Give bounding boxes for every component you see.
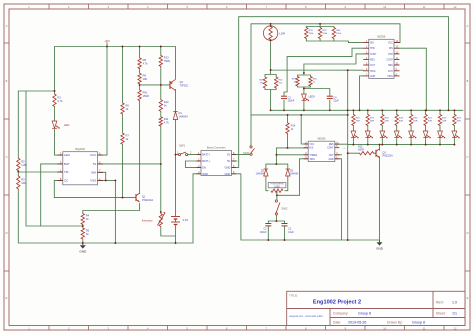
svg-text:GND: GND	[370, 76, 375, 78]
svg-text:5V: 5V	[227, 153, 230, 157]
svg-text:Company:: Company:	[333, 312, 349, 316]
svg-text:TRIG: TRIG	[309, 159, 315, 161]
svg-text:RES: RES	[388, 65, 393, 67]
svg-text:LED9: LED9	[309, 96, 316, 99]
svg-text:INH: INH	[91, 170, 96, 174]
svg-text:BAT: BAT	[64, 162, 70, 166]
svg-text:A: A	[6, 24, 8, 28]
svg-text:GND: GND	[225, 172, 231, 176]
svg-text:C: C	[6, 155, 8, 159]
svg-text:VCC: VCC	[90, 153, 97, 157]
svg-text:thermistor: thermistor	[142, 220, 153, 223]
svg-text:RV1: RV1	[143, 91, 149, 95]
svg-text:150R: 150R	[143, 94, 149, 98]
svg-text:1N4004: 1N4004	[290, 173, 299, 176]
svg-text:1N4004: 1N4004	[179, 114, 189, 118]
svg-text:PN2222A: PN2222A	[383, 155, 394, 158]
svg-text:BATT+: BATT+	[202, 159, 210, 163]
svg-text:LED: LED	[64, 153, 71, 157]
svg-text:SW1: SW1	[179, 144, 186, 148]
svg-text:R5: R5	[86, 229, 90, 233]
svg-text:82R: 82R	[457, 121, 461, 123]
svg-text:1.0: 1.0	[452, 300, 457, 304]
svg-text:100K: 100K	[274, 185, 280, 188]
svg-text:5V: 5V	[227, 159, 230, 163]
svg-text:TIP32C: TIP32C	[180, 84, 189, 88]
svg-text:1.8K: 1.8K	[21, 163, 27, 167]
svg-text:100nF: 100nF	[288, 100, 295, 103]
svg-text:TRIG: TRIG	[387, 76, 393, 78]
svg-text:10K: 10K	[21, 181, 26, 185]
svg-text:82R: 82R	[399, 121, 403, 123]
svg-text:2019-05-26: 2019-05-26	[348, 320, 366, 324]
svg-text:B: B	[467, 79, 469, 83]
svg-text:10K: 10K	[143, 77, 148, 81]
svg-text:D: D	[6, 231, 8, 235]
svg-text:R9: R9	[143, 74, 147, 78]
svg-text:SW2: SW2	[243, 151, 250, 155]
svg-text:GND: GND	[328, 159, 333, 161]
svg-text:R6: R6	[126, 104, 130, 108]
svg-text:REV:: REV:	[436, 300, 444, 304]
svg-text:BATT+: BATT+	[202, 153, 210, 157]
svg-text:VSS: VSS	[90, 178, 96, 182]
svg-text:LED: LED	[64, 123, 69, 127]
svg-text:B: B	[6, 79, 8, 83]
svg-text:Q2: Q2	[180, 80, 184, 84]
svg-text:+5V: +5V	[104, 39, 109, 43]
svg-text:GND: GND	[79, 249, 87, 253]
svg-text:GND: GND	[225, 165, 231, 169]
svg-text:R11: R11	[164, 117, 169, 121]
svg-text:Drawn By:: Drawn By:	[387, 320, 403, 324]
svg-text:Boost Converter: Boost Converter	[207, 146, 226, 150]
svg-text:E: E	[467, 296, 469, 300]
svg-text:RES: RES	[329, 144, 334, 146]
svg-text:R2: R2	[21, 160, 25, 164]
svg-text:82R: 82R	[385, 121, 389, 123]
svg-text:TS: TS	[92, 162, 96, 166]
svg-text:THR: THR	[370, 48, 375, 50]
svg-text:100nF: 100nF	[260, 231, 267, 234]
svg-text:82R: 82R	[356, 121, 360, 123]
svg-text:TITLE:: TITLE:	[289, 294, 298, 298]
svg-text:RES: RES	[370, 60, 375, 62]
svg-text:NE555: NE555	[318, 136, 326, 140]
svg-text:NE556: NE556	[377, 35, 385, 39]
svg-text:OUT: OUT	[388, 71, 393, 73]
svg-text:82R: 82R	[370, 121, 374, 123]
svg-text:2.7k: 2.7k	[58, 99, 64, 103]
svg-text:22uF: 22uF	[333, 100, 339, 103]
svg-text:GND: GND	[376, 246, 384, 250]
svg-text:82R: 82R	[428, 121, 432, 123]
svg-text:4.7k: 4.7k	[164, 120, 170, 124]
svg-text:R13: R13	[164, 56, 169, 60]
svg-text:CONT: CONT	[327, 148, 334, 150]
svg-text:750R: 750R	[164, 59, 170, 63]
svg-text:DIS: DIS	[370, 43, 374, 45]
svg-text:VCC: VCC	[388, 43, 393, 45]
svg-text:OUT: OUT	[329, 155, 334, 157]
svg-text:CONT: CONT	[386, 60, 393, 62]
svg-text:easyeda.com - schematic editor: easyeda.com - schematic editor	[289, 315, 323, 318]
svg-text:82R: 82R	[413, 121, 417, 123]
svg-text:A: A	[467, 24, 469, 28]
svg-text:LDR: LDR	[279, 32, 285, 36]
svg-text:R12: R12	[164, 100, 169, 104]
svg-text:D: D	[467, 231, 469, 235]
svg-text:82R: 82R	[442, 121, 446, 123]
svg-text:2.4V: 2.4V	[183, 218, 189, 222]
svg-text:GND: GND	[202, 172, 208, 176]
svg-text:Date:: Date:	[333, 320, 341, 324]
svg-text:D1: D1	[179, 111, 183, 115]
svg-text:VCC: VCC	[309, 144, 314, 146]
svg-text:1/1: 1/1	[452, 312, 457, 316]
svg-text:4.7k: 4.7k	[143, 62, 149, 66]
svg-text:OUT: OUT	[370, 65, 375, 67]
svg-text:R7: R7	[126, 134, 130, 138]
svg-text:BQ2002: BQ2002	[75, 147, 85, 151]
svg-text:300R: 300R	[358, 149, 364, 152]
svg-text:Group 8: Group 8	[412, 320, 425, 324]
svg-text:DIS: DIS	[389, 48, 393, 50]
svg-text:R8: R8	[143, 58, 147, 62]
svg-text:THR: THR	[388, 54, 393, 56]
svg-text:Q1: Q1	[142, 195, 146, 199]
svg-text:SW2: SW2	[281, 206, 288, 210]
svg-text:Eng1002 Project 2: Eng1002 Project 2	[313, 300, 361, 306]
svg-text:R3: R3	[21, 178, 25, 182]
svg-text:TRIG: TRIG	[370, 71, 376, 73]
svg-text:THRES: THRES	[309, 155, 317, 157]
svg-text:R4: R4	[86, 214, 90, 218]
svg-text:Sheet:: Sheet:	[436, 312, 446, 316]
svg-text:TM: TM	[64, 170, 69, 174]
svg-text:1N4004: 1N4004	[256, 173, 265, 176]
svg-text:C: C	[467, 155, 469, 159]
svg-text:R1: R1	[58, 96, 62, 100]
svg-text:PN2222A: PN2222A	[142, 198, 153, 202]
svg-text:EN: EN	[202, 165, 206, 169]
svg-text:10uF: 10uF	[288, 231, 294, 234]
svg-text:DIS: DIS	[309, 148, 313, 150]
svg-text:E: E	[6, 296, 8, 300]
svg-text:CONT: CONT	[370, 54, 377, 56]
svg-text:Group 8: Group 8	[358, 312, 371, 316]
